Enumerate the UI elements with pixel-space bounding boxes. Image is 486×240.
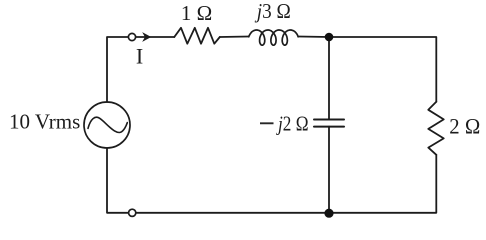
node B junction dot (bottom) bbox=[324, 209, 333, 218]
capacitor C1 top plate bbox=[314, 119, 344, 121]
svg-text:j3 Ω: j3 Ω bbox=[254, 0, 291, 23]
svg-text:10 Vrms: 10 Vrms bbox=[9, 110, 80, 134]
resistor R2 (2 ohm) vertical zigzag bbox=[428, 102, 443, 155]
wire: bottom terminal to bottom-left corner up to source bbox=[107, 148, 129, 213]
resistor R1 (1 ohm) zigzag bbox=[174, 28, 220, 44]
wire: between R1 and inductor L1 bbox=[220, 36, 249, 39]
label: -j2 ohm minus sign bbox=[260, 122, 274, 124]
wire: capacitor bottom plate down to bottom node B bbox=[328, 127, 330, 213]
wire: top-left from source to terminal bbox=[107, 37, 128, 102]
svg-text:I: I bbox=[136, 43, 143, 68]
node A junction dot (top) bbox=[325, 33, 334, 42]
terminal: open circle top bbox=[128, 33, 135, 40]
arrowhead for current I bbox=[142, 32, 151, 42]
AC source sine symbol bbox=[88, 117, 127, 132]
AC source VS circle (10 Vrms) bbox=[84, 102, 130, 148]
wire: inductor to top node A bbox=[299, 36, 329, 39]
svg-text:2 Ω: 2 Ω bbox=[449, 113, 480, 138]
inductor L1 (j3 ohm) coil bbox=[249, 30, 298, 45]
wire: R2 down to bottom-right corner and left to bottom node B bbox=[329, 155, 436, 213]
wire: top from terminal through arrow to resistor R1 bbox=[136, 36, 175, 38]
wire: capacitor branch upper (node A down to top plate) bbox=[328, 37, 330, 119]
wire: top node A to top-right corner and down to resistor R2 bbox=[329, 37, 436, 102]
capacitor C1 bottom plate bbox=[314, 126, 344, 128]
wire: bottom node B left to bottom terminal bbox=[136, 212, 329, 214]
svg-text:j2 Ω: j2 Ω bbox=[276, 111, 309, 135]
svg-text:1 Ω: 1 Ω bbox=[181, 1, 212, 25]
terminal: open circle bottom bbox=[129, 209, 136, 216]
